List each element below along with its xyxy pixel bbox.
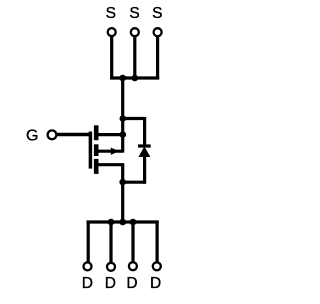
terminal circle D2 [107,263,115,271]
diode D1 top lead [143,117,146,146]
terminal circle S1 [108,28,116,36]
junction dot source bus / S2 [132,75,139,82]
wire diode top branch [121,117,145,120]
junction dot drain bus / main line [119,219,126,226]
wire S3 down [156,36,159,79]
svg-text:S: S [152,5,162,22]
drain bus wire [87,220,159,223]
junction dot source/channel [120,131,127,138]
mosfet Q1 channel segment bottom [94,159,99,174]
terminal circle S3 [154,28,162,36]
wire diode bottom branch [121,181,145,184]
junction dot diode bottom branch [119,179,126,186]
terminal circle D3 [129,262,137,270]
junction dot drain bus / D3 [130,219,137,226]
wire D4 down [156,221,159,263]
wire source to channel top [97,133,123,136]
wire S1 down [110,36,113,79]
mosfet Q1 gate plate [89,132,93,169]
mosfet Q1 channel segment top [94,125,99,140]
svg-text:D: D [105,275,116,292]
diode D1 triangle [138,146,150,157]
svg-text:D: D [150,275,161,292]
wire D1 down [87,221,90,263]
arrowhead body (points right, p-channel) [111,148,119,155]
svg-text:S: S [106,5,116,22]
junction dot diode top branch [120,115,127,122]
diode D1 cathode bar [138,144,151,147]
wire source vertical [121,78,124,153]
svg-text:G: G [26,128,38,145]
wire drain channel bottom + vertical down [97,165,123,222]
svg-text:D: D [126,275,137,292]
mosfet Q1 channel segment middle [94,144,99,156]
diode D1 bottom lead [143,157,146,184]
wire D2 down [109,221,112,263]
wire gate horizontal [57,133,92,137]
terminal circle S2 [131,28,139,36]
wire S2 down [133,36,136,79]
terminal circle D4 [153,262,161,270]
svg-text:D: D [82,275,93,292]
wire D3 down [131,221,134,263]
terminal circle G [48,130,57,139]
source bus wire [110,76,159,79]
svg-text:S: S [129,5,139,22]
junction dot source bus / main line [119,75,126,82]
wire body with arrow [97,150,122,153]
junction dot drain bus / D2 [108,219,115,226]
terminal circle D1 [84,262,92,270]
